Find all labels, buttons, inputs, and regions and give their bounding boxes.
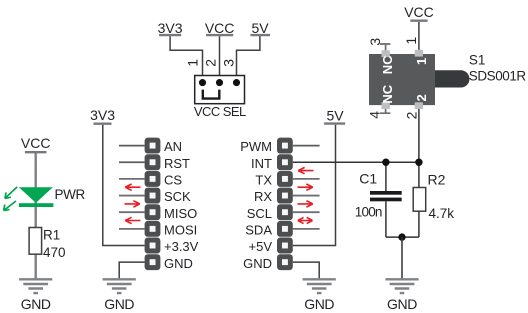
wire 3V3 rail to +3.3V pin [103, 125, 145, 246]
power flag VCC (S1) [404, 4, 434, 21]
svg-text:INT: INT [251, 156, 272, 171]
VCC SEL jumper bracket [203, 90, 220, 99]
svg-text:NC: NC [380, 84, 395, 103]
LED PWR (green) [19, 187, 54, 207]
svg-text:CS: CS [164, 173, 182, 188]
wire stub RX [293, 195, 320, 197]
svg-text:470: 470 [43, 245, 66, 260]
svg-text:1: 1 [184, 59, 200, 67]
LED emission arrow 1 [5, 187, 17, 199]
wire stub MISO [119, 211, 145, 213]
power flag VCC (LED branch) [21, 135, 51, 152]
svg-text:3V3: 3V3 [158, 20, 183, 36]
switch S1 body [369, 54, 435, 105]
arrow left (TX direction) [298, 167, 313, 173]
S1 pad pin 3 [382, 50, 390, 57]
pin labels J1 [164, 139, 199, 271]
S1 pad pin 4 [382, 102, 390, 109]
svg-text:5V: 5V [326, 107, 344, 123]
svg-text:3V3: 3V3 [90, 107, 115, 123]
ground (C1/R2) [385, 279, 418, 312]
wire stub SCK [119, 195, 145, 197]
wire stub PWM [293, 145, 320, 147]
S1 pin 3 stub (NC) [380, 44, 391, 54]
capacitor C1 wire bottom [385, 201, 387, 237]
S1 pin 4 stub (NC) [380, 105, 391, 113]
junction node GND rail [398, 233, 405, 240]
svg-text:GND: GND [21, 296, 51, 312]
power flag VCC (VCC SEL) [205, 20, 235, 36]
arrow left (MOSI direction) [125, 217, 140, 223]
arrow both ways (SDA direction) [298, 217, 313, 223]
svg-text:AN: AN [164, 139, 182, 154]
svg-text:4.7k: 4.7k [429, 206, 455, 221]
capacitor C1 plates [370, 191, 402, 201]
arrow right (MISO direction) [125, 201, 140, 207]
svg-text:2: 2 [404, 111, 420, 119]
svg-text:+3.3V: +3.3V [164, 239, 199, 254]
svg-text:2: 2 [202, 59, 218, 67]
svg-text:5V: 5V [251, 20, 269, 36]
wire stub CS [119, 178, 145, 180]
header J2 right (mikroBUS) pads [277, 138, 293, 270]
LED emission arrow 2 [4, 201, 16, 211]
junction node INT/R2/S1 [415, 159, 422, 166]
svg-text:VCC: VCC [404, 4, 434, 20]
svg-text:R2: R2 [428, 171, 446, 187]
svg-text:2: 2 [414, 94, 429, 101]
svg-text:RST: RST [164, 156, 190, 171]
wire 3V3 to VCC SEL pin 1 [170, 36, 202, 80]
svg-text:R1: R1 [43, 227, 60, 242]
svg-text:GND: GND [243, 256, 272, 271]
power flag 3V3 (VCC SEL) [158, 20, 183, 36]
resistor R2 [413, 171, 454, 221]
svg-text:SDA: SDA [245, 222, 272, 237]
wire stub TX [293, 178, 320, 180]
svg-text:SCK: SCK [164, 189, 191, 204]
svg-text:S1: S1 [469, 52, 486, 67]
svg-text:3: 3 [221, 59, 237, 67]
svg-text:GND: GND [304, 296, 334, 312]
svg-text:VCC SEL: VCC SEL [194, 104, 246, 119]
wire stub MOSI [119, 228, 145, 230]
wire bottom rail C1-R2 [386, 236, 419, 238]
wire R2 bottom [418, 211, 420, 237]
header J1 left (mikroBUS) pads [145, 138, 161, 270]
svg-text:PWR: PWR [55, 187, 86, 202]
wire VCC to VCC SEL pin 2 [219, 36, 221, 80]
ground (left header) [103, 279, 136, 312]
wire stub AN [119, 145, 145, 147]
arrow right (RX direction) [298, 184, 313, 190]
wire S1 pin 2 to node / R2 [418, 105, 420, 188]
svg-text:GND: GND [104, 296, 134, 312]
wire 5V to VCC SEL pin 3 [237, 36, 260, 80]
connector VCC SEL box [195, 76, 245, 104]
wire VCC to S1 pin 1 [418, 22, 420, 54]
svg-text:SDS001R: SDS001R [469, 69, 527, 84]
junction node INT/C1 [382, 159, 389, 166]
wire INT (to C1/R2 node) [293, 161, 419, 163]
resistor R1 [29, 227, 65, 259]
svg-text:4: 4 [367, 111, 383, 119]
svg-text:GND: GND [387, 296, 417, 312]
power flag 5V (right header) [324, 107, 345, 123]
S1 pad pin 2 [415, 102, 423, 109]
switch S1 barrel [435, 70, 470, 87]
power flag 5V (VCC SEL) [250, 20, 270, 36]
svg-text:GND: GND [164, 256, 193, 271]
svg-text:VCC: VCC [21, 135, 51, 151]
svg-text:NC: NC [380, 55, 395, 74]
S1 pad pin 1 [415, 50, 423, 57]
VCC SEL pin 2 dot [216, 79, 223, 86]
svg-text:3: 3 [367, 38, 383, 46]
power flag 3V3 (left header) [90, 107, 115, 124]
svg-text:MOSI: MOSI [164, 222, 197, 237]
wire stub SCL [293, 211, 320, 213]
svg-text:TX: TX [255, 173, 272, 188]
svg-text:MISO: MISO [164, 206, 197, 221]
wire stub SDA [293, 228, 320, 230]
arrow left (SCK direction) [125, 184, 140, 190]
svg-text:+5V: +5V [249, 239, 273, 254]
svg-text:SCL: SCL [247, 206, 272, 221]
svg-text:RX: RX [254, 189, 272, 204]
svg-text:100n: 100n [355, 205, 382, 220]
ground (LED branch) [19, 279, 52, 312]
svg-text:1: 1 [403, 37, 419, 45]
svg-text:VCC: VCC [205, 20, 235, 36]
VCC SEL pin 1 dot [199, 79, 206, 86]
svg-text:C1: C1 [359, 171, 377, 187]
wire VCC to LED to R1 to GND (left branch) [35, 152, 37, 279]
VCC SEL pin 3 dot [233, 79, 240, 86]
ground (right header) [303, 279, 336, 312]
wire 5V rail to +5V pin [293, 125, 336, 246]
wire GND (right header) [293, 262, 319, 279]
wire GND (left header) [119, 262, 144, 279]
svg-text:PWM: PWM [240, 139, 272, 154]
svg-text:1: 1 [414, 58, 429, 65]
arrow right (SCL direction) [298, 201, 313, 207]
wire stub RST [119, 161, 145, 163]
capacitor C1 wire top [385, 162, 387, 191]
pin labels J2 [240, 139, 272, 271]
wire to GND (C1/R2) [401, 237, 403, 279]
